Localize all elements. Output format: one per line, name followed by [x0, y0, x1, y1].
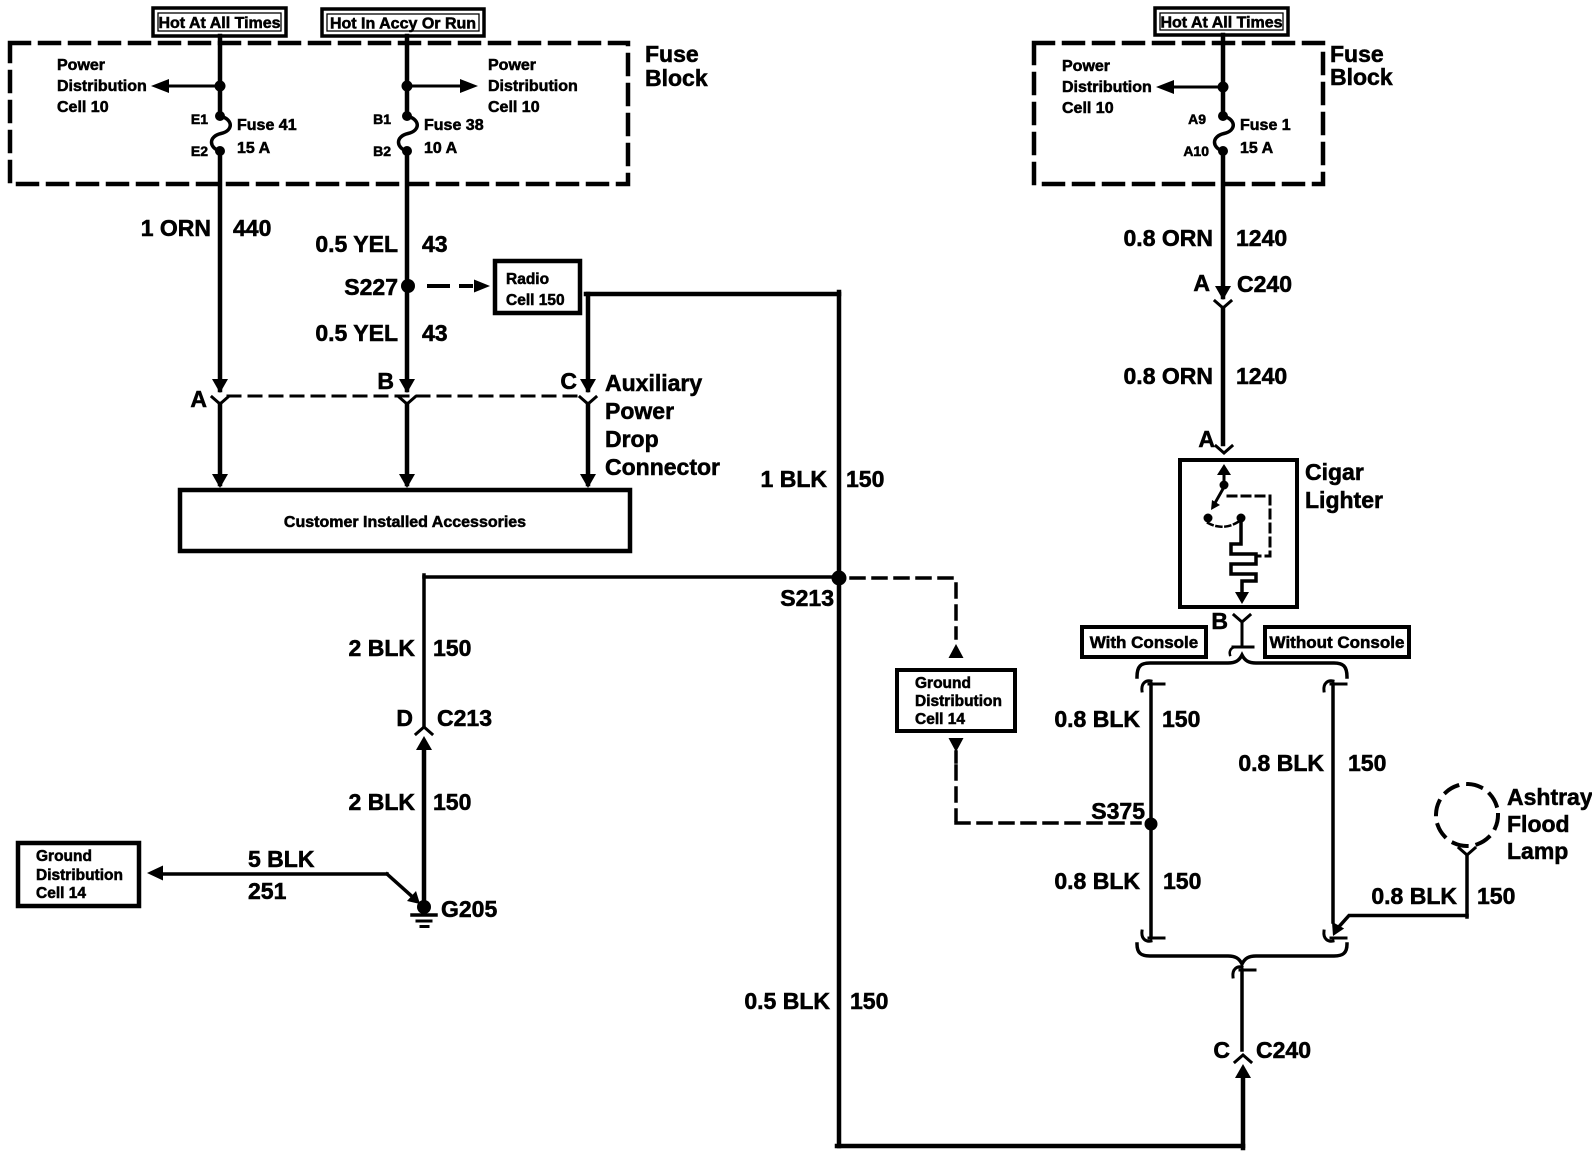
- cigar lighter: dashed linkage frame: [1228, 496, 1270, 556]
- svg-text:5 BLK: 5 BLK: [248, 846, 315, 872]
- cigar lighter: dashed linkage arc: [1208, 522, 1238, 527]
- svg-text:Cell 10: Cell 10: [1062, 100, 1114, 117]
- svg-text:Distribution: Distribution: [1062, 79, 1152, 96]
- svg-text:C213: C213: [437, 705, 492, 731]
- svg-text:A9: A9: [1188, 111, 1206, 127]
- splice S375: [1145, 818, 1158, 831]
- svg-text:Fuse 1: Fuse 1: [1240, 117, 1291, 134]
- wire: 0.8 BLK 150 with-console branch upper: [1149, 684, 1153, 824]
- wire: 0.8 BLK 150 without-console branch: [1331, 684, 1335, 922]
- wire: 0.5 BLK 150 from S213 to bottom run: [837, 578, 842, 1146]
- svg-text:A: A: [1198, 426, 1215, 452]
- svg-text:150: 150: [1163, 868, 1201, 894]
- svg-text:E2: E2: [191, 143, 208, 159]
- svg-text:43: 43: [422, 320, 448, 346]
- brace: console branches merge: [1137, 944, 1347, 964]
- cigar lighter: pin A arrow inside: [1217, 464, 1231, 475]
- svg-text:B2: B2: [373, 143, 391, 159]
- svg-text:251: 251: [248, 878, 287, 904]
- lamp: ashtray flood lamp (dashed bulb): [1436, 784, 1498, 846]
- node: junction on circuit B wire: [402, 81, 413, 92]
- svg-text:43: 43: [422, 231, 448, 257]
- splice S227: [401, 279, 415, 293]
- svg-text:150: 150: [1348, 750, 1386, 776]
- svg-text:1 BLK: 1 BLK: [761, 466, 828, 492]
- svg-text:B: B: [377, 368, 394, 394]
- svg-text:Ground: Ground: [36, 848, 92, 865]
- fuse block (right) dashed outline: [1034, 43, 1323, 184]
- svg-text:Power: Power: [605, 398, 674, 424]
- wire: 0.8 ORN 1240 from C240 to cigar lighter pin A: [1221, 308, 1226, 444]
- svg-text:150: 150: [1477, 883, 1515, 909]
- svg-text:D: D: [396, 705, 413, 731]
- dashed connector gang line A-B-C: [228, 395, 580, 398]
- svg-text:Flood: Flood: [1507, 811, 1570, 837]
- wire: 0.8 ORN 1240 from fuse 1 to connector A C240: [1221, 151, 1226, 297]
- svg-text:Power: Power: [57, 57, 105, 74]
- terminal: with-console branch bottom: [1142, 931, 1151, 941]
- svg-text:Lamp: Lamp: [1507, 838, 1568, 864]
- cigar lighter: switch blade: [1215, 487, 1224, 503]
- svg-text:B1: B1: [373, 111, 391, 127]
- wire: S213 left to ground drop corner: [424, 575, 839, 579]
- svg-text:Auxiliary: Auxiliary: [605, 370, 702, 396]
- wire: Hot In Accy Or Run down to Fuse 38: [405, 36, 410, 116]
- reference arrow into Ground Distribution Cell 14 (left): [147, 866, 163, 881]
- label box: Without Console: [1265, 627, 1409, 657]
- svg-text:S375: S375: [1091, 798, 1145, 824]
- svg-text:0.5 YEL: 0.5 YEL: [315, 231, 398, 257]
- wire: 0.8 BLK 150 with-console branch lower: [1149, 824, 1153, 937]
- svg-text:Hot In Accy Or Run: Hot In Accy Or Run: [330, 15, 476, 32]
- svg-text:Power: Power: [1062, 58, 1110, 75]
- wire: 2 BLK 150 from C213 to G205: [422, 745, 427, 905]
- svg-text:Power: Power: [488, 57, 536, 74]
- svg-text:150: 150: [1162, 706, 1200, 732]
- connector A of aux power drop: [212, 379, 228, 393]
- wire: Hot At All Times down to Fuse 41: [218, 36, 223, 116]
- connector B of aux power drop: [399, 379, 415, 393]
- svg-text:Customer Installed Accessories: Customer Installed Accessories: [284, 514, 526, 531]
- svg-text:Cigar: Cigar: [1305, 459, 1364, 485]
- svg-text:C240: C240: [1256, 1037, 1311, 1063]
- svg-text:Drop: Drop: [605, 426, 659, 452]
- svg-text:Ashtray: Ashtray: [1507, 784, 1592, 810]
- svg-text:Hot At All Times: Hot At All Times: [1160, 14, 1282, 31]
- fuse block (left) dashed outline: [10, 43, 628, 184]
- svg-text:0.5 YEL: 0.5 YEL: [315, 320, 398, 346]
- node: junction on circuit A wire: [1218, 82, 1229, 93]
- pin B of cigar lighter: [1234, 615, 1250, 622]
- svg-text:Fuse 41: Fuse 41: [237, 117, 297, 134]
- fuse Fuse 41 15 A: [215, 111, 225, 121]
- pin of ashtray flood lamp: [1459, 848, 1475, 855]
- wire: arrow to Power Distribution Cell 10 (right): [1172, 86, 1223, 89]
- dashed wire: Ground Distribution Cell 14 down to S375: [949, 738, 964, 752]
- svg-text:150: 150: [850, 988, 888, 1014]
- reference box: Ground Distribution Cell 14 (right): [897, 670, 1015, 731]
- svg-text:C240: C240: [1237, 271, 1292, 297]
- svg-text:0.8 BLK: 0.8 BLK: [1054, 706, 1140, 732]
- svg-text:0.8 BLK: 0.8 BLK: [1371, 883, 1457, 909]
- svg-text:S227: S227: [344, 274, 398, 300]
- svg-text:Ground: Ground: [915, 675, 971, 692]
- splice S213: [832, 571, 847, 586]
- svg-text:Block: Block: [645, 65, 708, 91]
- reference box: Ground Distribution Cell 14 (left): [18, 843, 139, 906]
- svg-text:10 A: 10 A: [424, 140, 458, 157]
- svg-text:Cell 150: Cell 150: [506, 292, 565, 309]
- svg-text:1240: 1240: [1236, 225, 1287, 251]
- svg-text:Cell 14: Cell 14: [915, 711, 965, 728]
- svg-text:Connector: Connector: [605, 454, 720, 480]
- svg-text:2 BLK: 2 BLK: [349, 635, 416, 661]
- label box: Hot In Accy Or Run: [322, 9, 484, 36]
- cigar lighter: switch pivot dot: [1220, 481, 1229, 490]
- svg-text:A10: A10: [1183, 143, 1209, 159]
- terminal: without-console branch bottom: [1330, 922, 1345, 938]
- connector D C213: [416, 727, 432, 734]
- wire: 0.5 YEL 43 from fuse 38 to S227: [405, 151, 410, 286]
- svg-text:Fuse: Fuse: [645, 41, 699, 67]
- dashed reference arrow S227 to Radio: [429, 284, 471, 288]
- wire: bottom run to connector C C240: [837, 1144, 1243, 1149]
- svg-text:Radio: Radio: [506, 271, 549, 288]
- label box: Hot At All Times (right): [1155, 8, 1288, 35]
- svg-text:Lighter: Lighter: [1305, 487, 1383, 513]
- wire: 1 ORN 440 from fuse 41 to connector A: [218, 151, 223, 390]
- wire: 1 BLK 150 riser from connector C to S213: [586, 294, 591, 390]
- wire: connector A into accessories box: [218, 404, 223, 484]
- connector A C240: [1215, 286, 1231, 300]
- svg-text:1240: 1240: [1236, 363, 1287, 389]
- svg-text:2 BLK: 2 BLK: [349, 789, 416, 815]
- svg-text:Without Console: Without Console: [1270, 633, 1405, 652]
- svg-text:Cell 14: Cell 14: [36, 885, 86, 902]
- connector C of aux power drop: [580, 379, 596, 393]
- terminal: without-console branch top: [1324, 681, 1333, 691]
- wire: arrow to Power Distribution Cell 10 (middle): [407, 85, 462, 88]
- svg-text:Distribution: Distribution: [57, 78, 147, 95]
- svg-text:G205: G205: [441, 896, 497, 922]
- svg-text:Distribution: Distribution: [36, 867, 123, 884]
- svg-text:1 ORN: 1 ORN: [141, 215, 211, 241]
- svg-text:C: C: [560, 368, 577, 394]
- svg-text:Cell 10: Cell 10: [57, 99, 109, 116]
- svg-text:Cell 10: Cell 10: [488, 99, 540, 116]
- wire: 0.5 YEL 43 from S227 to connector B: [405, 286, 410, 390]
- svg-text:150: 150: [846, 466, 884, 492]
- svg-text:With Console: With Console: [1090, 633, 1198, 652]
- label box: With Console: [1082, 627, 1206, 657]
- fuse Fuse 1 15 A: [1218, 111, 1228, 121]
- svg-text:A: A: [1193, 270, 1210, 296]
- cigar lighter: contact dot right: [1237, 514, 1246, 523]
- svg-text:Distribution: Distribution: [488, 78, 578, 95]
- brace: split to console options: [1137, 655, 1347, 677]
- svg-text:Block: Block: [1330, 64, 1393, 90]
- svg-text:15 A: 15 A: [237, 140, 271, 157]
- component box: cigar lighter: [1180, 460, 1297, 607]
- svg-text:E1: E1: [191, 111, 208, 127]
- svg-text:0.8 ORN: 0.8 ORN: [1124, 225, 1213, 251]
- svg-text:440: 440: [233, 215, 271, 241]
- label box: Hot At All Times (left): [153, 8, 286, 36]
- node: junction on circuit E wire: [215, 81, 226, 92]
- dashed wire: S213 to Ground Distribution Cell 14 (right): [851, 576, 956, 580]
- svg-text:S213: S213: [780, 585, 834, 611]
- wire: 0.8 BLK 150 from ashtray lamp to without-console terminal: [1465, 855, 1469, 917]
- svg-text:15 A: 15 A: [1240, 140, 1274, 157]
- svg-text:150: 150: [433, 635, 471, 661]
- wire: connector C into accessories box: [586, 404, 591, 484]
- wire: Hot At All Times down to Fuse 1: [1221, 35, 1226, 116]
- box: Customer Installed Accessories: [180, 490, 630, 551]
- cigar lighter: heating element: [1231, 519, 1256, 592]
- cigar lighter: contact dot left: [1204, 514, 1213, 523]
- reference box: Radio Cell 150: [495, 261, 580, 313]
- svg-text:0.8 BLK: 0.8 BLK: [1054, 868, 1140, 894]
- wire: arrow to Power Distribution Cell 10 (left): [168, 85, 220, 88]
- wire: 5 BLK 251 to ground distribution: [159, 872, 387, 876]
- pin A of cigar lighter: [1216, 446, 1232, 453]
- svg-text:150: 150: [433, 789, 471, 815]
- connector C C240: [1233, 967, 1242, 977]
- svg-text:Hot At All Times: Hot At All Times: [158, 15, 280, 32]
- svg-text:Distribution: Distribution: [915, 693, 1002, 710]
- svg-text:C: C: [1213, 1037, 1230, 1063]
- fuse Fuse 38 10 A: [402, 111, 412, 121]
- svg-text:0.8 BLK: 0.8 BLK: [1238, 750, 1324, 776]
- terminal: with-console branch top: [1142, 681, 1151, 691]
- svg-text:B: B: [1211, 608, 1228, 634]
- wire: connector B into accessories box: [405, 404, 410, 484]
- svg-text:0.5 BLK: 0.5 BLK: [744, 988, 830, 1014]
- svg-text:Fuse 38: Fuse 38: [424, 117, 484, 134]
- svg-text:0.8 ORN: 0.8 ORN: [1124, 363, 1213, 389]
- svg-text:A: A: [190, 386, 207, 412]
- ground G205: [417, 900, 431, 914]
- cigar lighter: pin B arrow inside: [1241, 590, 1244, 592]
